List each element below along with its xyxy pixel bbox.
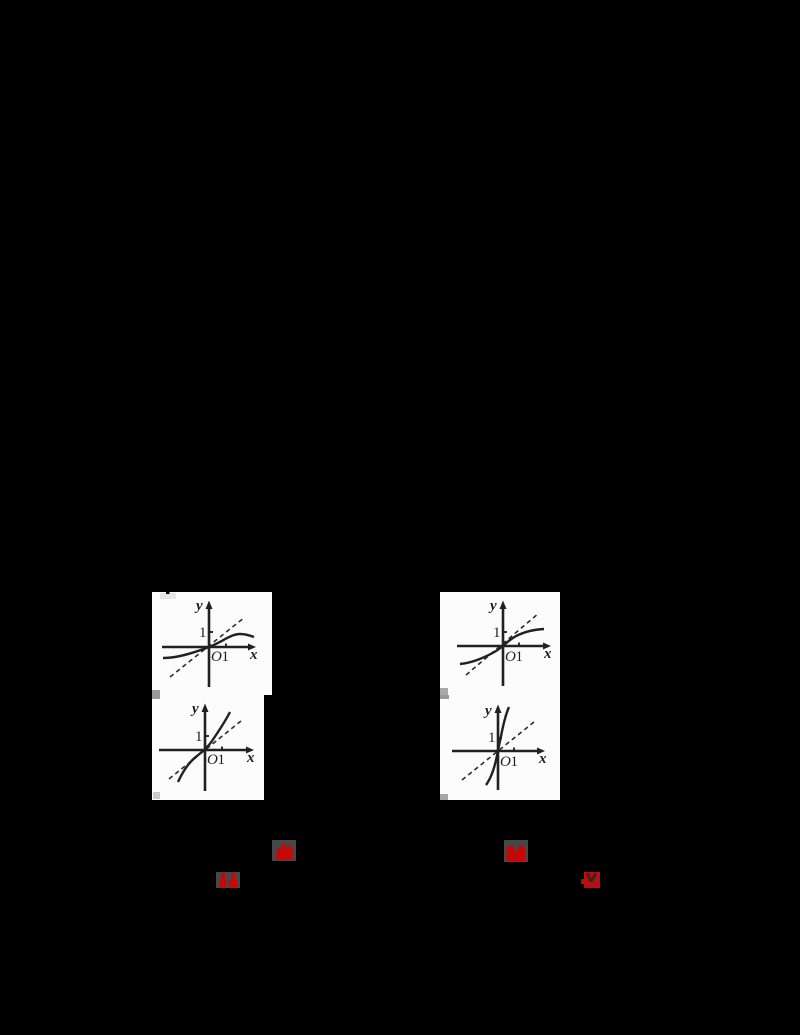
svg-text:1: 1: [516, 649, 524, 665]
svg-text:O: O: [207, 752, 218, 768]
grey smudge bottom-left: [152, 690, 160, 695]
dashed line y=x: [169, 721, 241, 779]
svg-text:y: y: [488, 598, 497, 614]
tick y=1: [209, 631, 213, 633]
svg-text:1: 1: [511, 754, 519, 770]
svg-text:O: O: [500, 754, 511, 770]
tick x=1: [221, 747, 223, 751]
graph C (bottom-left): steep cubic/tan curve vs dashed y=x: [152, 695, 264, 800]
red mark 3 (right column, upper): [504, 840, 528, 862]
svg-text:1: 1: [222, 649, 230, 665]
svg-text:y: y: [483, 703, 492, 719]
black notch top edge: [166, 592, 170, 594]
svg-text:1: 1: [218, 752, 226, 768]
x-axis: [159, 749, 248, 752]
svg-text:x: x: [538, 751, 547, 767]
y-axis: [502, 605, 505, 686]
sine curve: [163, 634, 254, 658]
red mark 4 nub (left side): [581, 879, 584, 884]
x-axis: [457, 645, 545, 648]
dashed line y=x: [466, 613, 539, 675]
grey smudge bottom-left: [440, 794, 448, 800]
grey smudge top-left: [440, 695, 449, 699]
red mark 2 (left column, lower): [216, 872, 240, 888]
svg-text:1: 1: [195, 729, 203, 745]
svg-text:1: 1: [488, 730, 496, 746]
svg-text:x: x: [249, 647, 258, 663]
svg-text:1: 1: [493, 625, 501, 641]
svg-text:1: 1: [199, 625, 207, 641]
svg-text:O: O: [211, 649, 222, 665]
svg-text:O: O: [505, 649, 516, 665]
svg-text:x: x: [246, 750, 255, 766]
S curve: [460, 629, 544, 664]
grey smudge bottom-left: [153, 792, 160, 799]
y-axis: [208, 605, 211, 687]
svg-text:y: y: [194, 598, 203, 614]
steep S curve: [178, 712, 230, 782]
grey smudge top-left: [160, 593, 176, 599]
x-axis: [162, 646, 250, 649]
svg-text:x: x: [543, 646, 552, 662]
tick x=1: [225, 644, 227, 648]
tick y=1: [503, 631, 507, 633]
dashed line y=x: [462, 722, 534, 780]
y-axis: [204, 708, 207, 791]
graph D (bottom-right): near-vertical steep curve vs dashed y=x: [440, 695, 560, 800]
x-axis: [452, 750, 539, 753]
tick x=1: [513, 748, 515, 752]
red mark 1 (left column, upper): [272, 840, 296, 861]
dashed line y=x: [170, 617, 245, 677]
y-axis: [497, 709, 500, 790]
tick y=1: [205, 735, 209, 737]
grey smudge bottom-left: [440, 688, 448, 695]
graph B (top-right): arctan-like S curve vs dashed y=x: [440, 592, 560, 695]
grey smudge top-left: [152, 695, 160, 699]
very steep curve: [486, 707, 509, 785]
red mark 4 (right column, lower): [584, 872, 600, 888]
tick x=1: [518, 643, 520, 647]
svg-text:y: y: [190, 701, 199, 717]
graph A (top-left): y=sin x vs dashed y=x: [152, 592, 272, 695]
tick y=1: [498, 737, 502, 739]
